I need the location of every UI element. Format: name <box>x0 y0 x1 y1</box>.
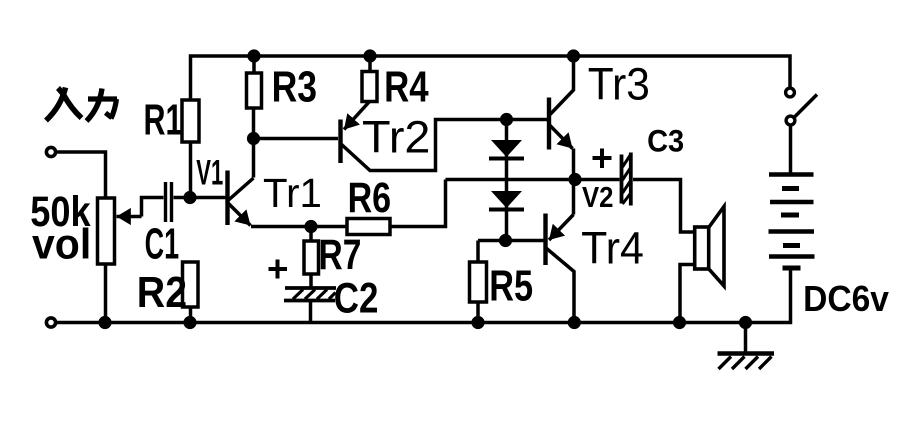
svg-text:C3: C3 <box>647 124 684 158</box>
svg-text:Tr4: Tr4 <box>581 224 644 274</box>
svg-text:R5: R5 <box>489 261 533 310</box>
svg-text:C1: C1 <box>145 219 179 268</box>
svg-text:R2: R2 <box>137 267 187 317</box>
svg-text:R7: R7 <box>319 231 362 279</box>
svg-text:V2: V2 <box>582 181 613 214</box>
svg-text:Tr3: Tr3 <box>588 59 650 109</box>
svg-text:R6: R6 <box>348 174 392 222</box>
svg-text:R3: R3 <box>272 63 317 111</box>
svg-text:Tr1: Tr1 <box>263 170 322 216</box>
svg-text:V1: V1 <box>196 155 223 193</box>
svg-text:vol: vol <box>32 220 91 268</box>
svg-text:DC6v: DC6v <box>803 279 889 319</box>
svg-text:Tr2: Tr2 <box>362 111 430 162</box>
svg-text:R4: R4 <box>384 63 429 112</box>
svg-text:C2: C2 <box>334 275 379 322</box>
svg-text:R1: R1 <box>144 96 183 145</box>
